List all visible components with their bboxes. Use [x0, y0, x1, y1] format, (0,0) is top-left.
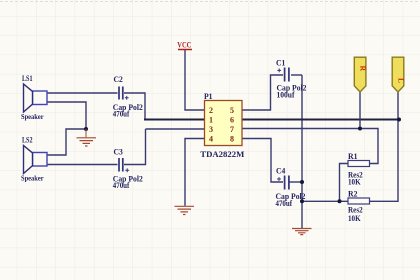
- op-amp IC P1 TDA2822M: [200, 92, 244, 159]
- node R1-R2 junction: [338, 199, 342, 203]
- connector pin A: [354, 57, 367, 92]
- svg-text:470uf: 470uf: [113, 181, 130, 190]
- svg-text:5: 5: [230, 106, 234, 115]
- svg-text:C3: C3: [114, 148, 123, 157]
- svg-text:10K: 10K: [348, 214, 361, 223]
- svg-text:L: L: [396, 78, 405, 83]
- wire C4 right to bus: [290, 181, 303, 183]
- wire C2 right to IC pin 1 corner: [124, 93, 145, 120]
- wire R2 right up to pin6 node: [370, 92, 399, 201]
- node pin7-connector junction: [358, 127, 362, 131]
- wire pin1 thick: [144, 119, 205, 121]
- wire LS2 bottom to C3: [47, 164, 118, 166]
- connector pin B: [392, 57, 405, 92]
- svg-text:R: R: [358, 66, 367, 72]
- speaker LS1: [21, 74, 47, 121]
- wire IC pin 4 to ground: [185, 139, 205, 206]
- wire vertical C1/C4/ground bus: [301, 75, 303, 228]
- wire LS2 top up to ground node: [47, 129, 86, 155]
- capacitor C2: [113, 75, 143, 119]
- node R2row-bus junction: [300, 199, 304, 203]
- wire VCC to IC pin 2: [185, 50, 205, 111]
- wire pin7 to R1: [242, 129, 378, 164]
- svg-text:Speaker: Speaker: [21, 174, 44, 183]
- svg-text:Speaker: Speaker: [21, 112, 44, 121]
- svg-text:1: 1: [209, 116, 213, 125]
- ground IC pin4: [175, 206, 195, 214]
- capacitor C4: [276, 167, 306, 209]
- speaker LS2: [21, 136, 47, 183]
- sheet top edge: [0, 1, 420, 3]
- ground bus bottom: [292, 229, 312, 235]
- wire pin6 thick: [242, 119, 399, 121]
- power VCC: [177, 40, 192, 49]
- ground speaker common: [77, 129, 97, 146]
- svg-text:7: 7: [230, 125, 234, 134]
- wire pin8 down to C4: [242, 139, 283, 183]
- wire R1 left branch down: [340, 164, 349, 202]
- svg-text:R2: R2: [348, 189, 358, 198]
- svg-text:100uf: 100uf: [277, 91, 295, 100]
- svg-text:470uf: 470uf: [113, 110, 130, 119]
- svg-text:4: 4: [209, 135, 213, 144]
- resistor R2: [348, 189, 370, 222]
- wire LS1 top to C2: [47, 92, 118, 94]
- capacitor C3: [113, 148, 143, 191]
- svg-text:R1: R1: [348, 152, 358, 161]
- svg-text:3: 3: [209, 125, 213, 134]
- wire pin3: [146, 128, 205, 130]
- svg-text:C1: C1: [276, 59, 285, 68]
- svg-text:P1: P1: [204, 92, 213, 101]
- resistor R1: [348, 152, 370, 187]
- node pin6-connector junction: [397, 118, 401, 122]
- svg-text:10K: 10K: [348, 178, 361, 187]
- svg-text:TDA2822M: TDA2822M: [200, 149, 244, 159]
- node speaker-ground junction: [84, 127, 88, 131]
- wire C3 right up to IC pin 3: [124, 129, 146, 165]
- svg-text:2: 2: [209, 106, 213, 115]
- svg-text:6: 6: [230, 116, 234, 125]
- wire R2 row from bus to R2: [302, 200, 348, 202]
- svg-text:C4: C4: [276, 167, 285, 176]
- wire connector A down to pin7 wire: [359, 92, 361, 129]
- svg-text:LS2: LS2: [22, 136, 33, 145]
- svg-text:VCC: VCC: [177, 40, 191, 49]
- wire IC pin 5 up to C1: [242, 75, 283, 110]
- svg-text:470uf: 470uf: [276, 199, 293, 208]
- svg-text:LS1: LS1: [22, 74, 33, 83]
- wire LS1 bottom down to ground node: [47, 102, 86, 129]
- svg-text:8: 8: [230, 135, 234, 144]
- svg-text:C2: C2: [114, 75, 123, 84]
- capacitor C1: [276, 59, 307, 100]
- wire C1 right to bus vertical: [291, 74, 302, 76]
- node C4-bus junction: [300, 180, 304, 184]
